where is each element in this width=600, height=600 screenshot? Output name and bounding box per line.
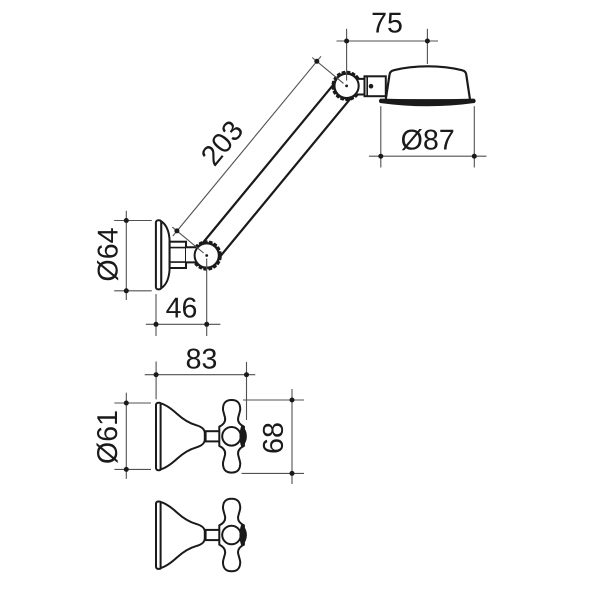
dim dot 203 lower [174, 228, 179, 233]
clamp block [365, 76, 386, 96]
upper joint knurl [332, 71, 362, 101]
dim dot 83 right [244, 372, 249, 377]
tap cross handle [219, 400, 244, 473]
tap handle hub [222, 526, 241, 545]
dimension line Ø64 [125, 211, 127, 300]
wall flange plate [156, 220, 161, 289]
dim dot 75 left [344, 39, 349, 44]
label 203 [200, 119, 244, 167]
dim dot Ø87 left [378, 154, 383, 159]
arm lower-right line [215, 93, 355, 263]
203 extension from upper joint [312, 58, 343, 84]
46 right extension from joint center [206, 259, 208, 337]
46 left extension [155, 294, 157, 336]
dim dot 68 bottom [290, 471, 295, 476]
dim dot Ø61 bottom [124, 467, 129, 472]
dim dot Ø64 top [124, 218, 129, 223]
Ø64 bottom extension [114, 290, 152, 292]
dimension line Ø61 [125, 393, 127, 479]
neck between joint and clamp block [357, 79, 365, 95]
tap cross handle [219, 499, 244, 572]
label Ø64 [97, 228, 118, 280]
label 83 [187, 349, 216, 369]
83 right extension [246, 362, 248, 420]
label Ø87 [402, 129, 454, 150]
spool between nut and joint [186, 247, 197, 262]
Ø87 right extension [473, 106, 475, 167]
hex nut [170, 242, 186, 268]
dim dot Ø61 top [124, 401, 129, 406]
lower joint center dot [205, 254, 208, 257]
dim dot 46 right [204, 322, 209, 327]
nut chamfer line bottom [170, 261, 186, 263]
tap handle end cap (dark) [240, 426, 246, 446]
68 top extension [243, 399, 304, 401]
dimension line 75 [337, 40, 439, 42]
Ø87 left extension [380, 106, 382, 167]
dim dot 68 top [290, 398, 295, 403]
tap flange bell body [161, 403, 205, 469]
dim dot 75 right [425, 39, 430, 44]
dimension line 68 [291, 389, 293, 484]
tap flange bell body [161, 502, 205, 568]
tap spindle [206, 530, 220, 540]
label 68 [263, 423, 283, 452]
label 46 [166, 298, 196, 318]
Ø61 bottom extension [114, 468, 151, 470]
dim dot Ø64 bottom [124, 288, 129, 293]
nut chamfer line top [170, 247, 186, 249]
clamp ring line [366, 76, 368, 96]
lower joint inner circle [195, 243, 219, 267]
shower head body [386, 66, 471, 100]
label 75 [373, 13, 402, 33]
dimension line 46 [146, 323, 221, 325]
dimension line Ø87 [369, 155, 487, 157]
tap flange base plate [156, 403, 161, 470]
tap flange base plate [156, 502, 161, 569]
75 right extension [426, 29, 428, 64]
upper joint center dot [345, 85, 348, 88]
shower head face flange (dark) [380, 99, 476, 105]
arm upper-left line [198, 79, 338, 249]
tap handle hub [222, 427, 241, 446]
clamp screw dot [369, 84, 374, 89]
dim dot Ø87 right [472, 154, 477, 159]
83 left extension [155, 362, 157, 400]
dim dot 46 left [154, 322, 159, 327]
tap handle end cap (dark) [240, 525, 246, 545]
label Ø61 [97, 411, 118, 463]
tap spindle [206, 431, 220, 441]
203 extension from lower joint [172, 227, 203, 253]
upper joint inner circle [335, 74, 359, 98]
wall flange dome [161, 221, 169, 288]
lower joint knurl [192, 241, 222, 271]
dim dot 83 left [154, 372, 159, 377]
dim dot 203 upper [314, 59, 319, 64]
dimension line 83 [145, 374, 256, 376]
Ø64 top extension [114, 220, 152, 222]
68 bottom extension [242, 472, 305, 474]
75 left extension into upper joint [346, 29, 348, 81]
dimension line 203 [173, 56, 321, 236]
Ø61 top extension [114, 402, 151, 404]
